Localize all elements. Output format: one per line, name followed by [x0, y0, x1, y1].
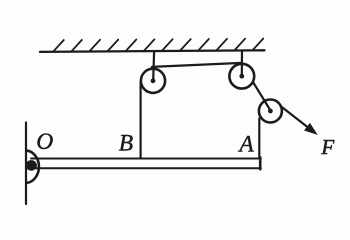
svg-text:B: B [119, 131, 133, 157]
wall [25, 123, 27, 205]
ceiling [40, 50, 265, 52]
rope B up to P1 [140, 82, 142, 159]
beam top edge [31, 158, 261, 160]
svg-text:O: O [36, 129, 53, 155]
rope P2 to P3 [254, 83, 271, 111]
pulley P1 hanger [152, 51, 155, 81]
svg-text:A: A [237, 132, 254, 158]
pivot dot O [26, 160, 37, 171]
pulley P1 [141, 69, 165, 93]
rope P1 top to P2 top [152, 63, 242, 67]
pulley P2 [229, 64, 254, 89]
pulley P1 axle dot [151, 78, 156, 83]
pulley P2 axle dot [239, 74, 244, 79]
beam right end cap [259, 158, 262, 170]
force F line [281, 106, 307, 126]
ceiling hatching [53, 39, 263, 52]
pulley P3 [259, 100, 282, 123]
force F arrowhead [305, 124, 317, 134]
pulley P2 hanger [241, 51, 243, 77]
beam bottom edge [31, 167, 261, 169]
rope P3 down to A [258, 119, 260, 159]
pulley P3 axle dot [268, 109, 273, 114]
svg-text:F: F [320, 135, 334, 159]
pivot bracket semicircle [27, 151, 39, 183]
